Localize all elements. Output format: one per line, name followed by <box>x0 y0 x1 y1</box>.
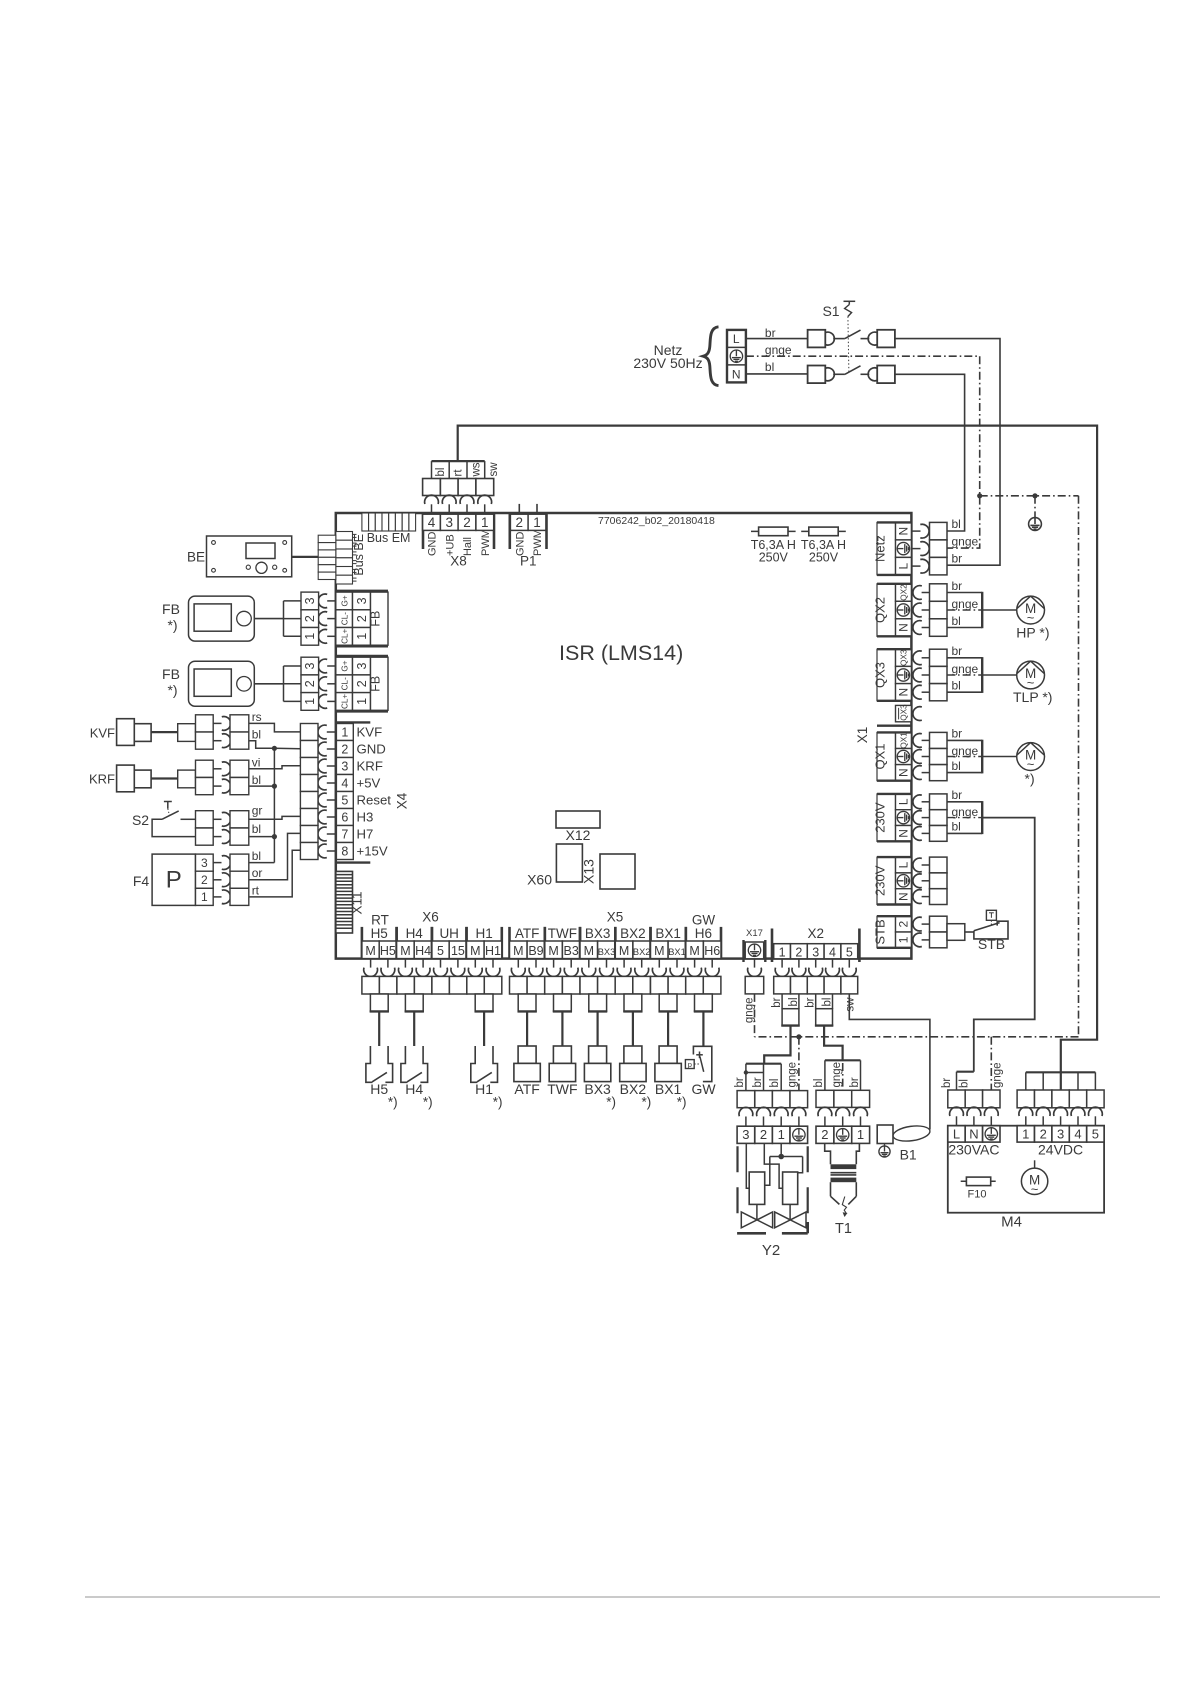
connector X6 plug row <box>362 976 380 994</box>
svg-text:+15V: +15V <box>357 844 388 859</box>
wire gnge <box>947 756 982 758</box>
svg-text:1: 1 <box>201 890 208 904</box>
svg-text:ISR (LMS14): ISR (LMS14) <box>559 641 683 665</box>
connector group QX3 label box <box>877 649 896 701</box>
svg-text:*): *) <box>493 1095 503 1110</box>
svg-text:L: L <box>897 562 911 569</box>
svg-text:bl: bl <box>952 820 961 834</box>
wire gnge X17 to dash-dot trunk <box>754 994 756 1037</box>
cable sleeve <box>370 994 388 1011</box>
connector group H4 (pins M/H4) <box>395 927 398 959</box>
svg-text:KVF: KVF <box>90 726 115 741</box>
room unit FB2 <box>189 661 255 706</box>
svg-text:1: 1 <box>778 1127 785 1142</box>
connector X8 plug cells <box>423 479 441 496</box>
svg-text:br: br <box>941 1078 953 1088</box>
sensor ATF <box>518 1046 536 1063</box>
connector 230V mating contacts <box>913 858 922 872</box>
cable down to device <box>378 1011 380 1046</box>
connector QX1 plug cells <box>930 732 948 748</box>
fuse F10 <box>961 1180 996 1182</box>
svg-text:*): *) <box>1025 771 1035 787</box>
svg-text:STB: STB <box>872 919 887 944</box>
switch H1 <box>471 1046 478 1082</box>
connector 230V board cells <box>896 857 912 873</box>
svg-text:FB: FB <box>162 601 180 617</box>
Y2 dashed enclosure <box>736 1146 738 1218</box>
svg-text:QX3: QX3 <box>899 649 908 666</box>
svg-text:*): *) <box>423 1095 433 1110</box>
cable down to device <box>483 1011 485 1046</box>
svg-text:7706242_b02_20180418: 7706242_b02_20180418 <box>598 515 715 527</box>
connector X2 brackets and label <box>771 929 774 963</box>
S1 pole connector boxes and blade <box>808 366 826 384</box>
cable sleeve <box>589 994 607 1011</box>
svg-text:1: 1 <box>355 633 369 640</box>
sensor BX2 <box>624 1046 642 1063</box>
svg-text:7: 7 <box>341 827 348 841</box>
connector QX1 board cells <box>896 732 912 748</box>
M4 24VDC fan-out <box>1026 1071 1096 1073</box>
svg-text:bl: bl <box>252 822 261 836</box>
svg-text:bl: bl <box>252 849 261 863</box>
connector T1 plug cells <box>816 1090 834 1107</box>
svg-text:M: M <box>584 944 594 958</box>
svg-text:N: N <box>732 367 741 381</box>
Y2 cable fan-out with labels br br bl gnge <box>746 1063 781 1065</box>
connector group 230V label box <box>877 857 896 904</box>
svg-text:gnge: gnge <box>992 1062 1004 1088</box>
connector X11 <box>336 871 353 933</box>
svg-text:1: 1 <box>303 633 317 640</box>
svg-text:BE: BE <box>187 550 205 565</box>
svg-text:250V: 250V <box>809 551 839 565</box>
svg-text:H5: H5 <box>371 926 388 941</box>
svg-text:M: M <box>689 944 699 958</box>
cable sleeve <box>659 994 677 1011</box>
connector X4 mating contacts <box>318 725 327 739</box>
svg-text:1: 1 <box>779 945 786 959</box>
svg-text:br: br <box>952 788 963 802</box>
svg-text:GND: GND <box>427 532 439 557</box>
svg-text:2: 2 <box>463 515 471 530</box>
wire gnge dash-dot inside T1 fan-out <box>842 1063 844 1090</box>
wire gnge dash-dot down to Netz plug <box>947 356 980 548</box>
svg-text:or: or <box>252 866 263 880</box>
svg-text:S2: S2 <box>132 812 149 828</box>
svg-text:bl: bl <box>952 614 961 628</box>
wire gnge <box>947 674 982 676</box>
pump HP <box>1017 596 1045 624</box>
svg-text:H4: H4 <box>406 926 424 941</box>
connector group Netz label box <box>877 522 896 575</box>
connector Netz board cells <box>896 522 912 540</box>
svg-text:GW: GW <box>691 1081 716 1097</box>
svg-text:H6: H6 <box>704 944 720 958</box>
connector group STB thick boundary lines <box>877 915 911 917</box>
connector group Netz thick boundary lines <box>877 521 911 523</box>
connector FB1 plug cells 3 2 1 <box>301 592 319 610</box>
svg-text:UH: UH <box>439 926 459 941</box>
wire gnge dash-dot into Y2 plug <box>798 1037 800 1091</box>
svg-text:bl: bl <box>769 1079 781 1088</box>
svg-text:H5: H5 <box>370 1081 388 1097</box>
sensor BX1 <box>659 1046 677 1063</box>
svg-text:M: M <box>513 944 523 958</box>
svg-text:M: M <box>654 944 664 958</box>
connector FB2 board cells G+ CL- CL+ / 3 2 1 <box>336 657 353 675</box>
svg-text:1: 1 <box>857 1127 864 1142</box>
svg-text:KRF: KRF <box>89 772 115 787</box>
svg-text:3: 3 <box>355 597 369 604</box>
cable sleeve X2 3+4 to T1 <box>815 994 817 1009</box>
svg-text:230V 50Hz: 230V 50Hz <box>633 355 702 371</box>
junction gnge trunk to Y2 <box>796 1034 801 1039</box>
switch H4 <box>401 1046 408 1082</box>
connector group QX2 thick boundary lines <box>877 583 911 585</box>
svg-text:bl: bl <box>813 1079 825 1088</box>
svg-text:H5: H5 <box>380 944 396 958</box>
svg-text:250V: 250V <box>759 551 789 565</box>
svg-text:2: 2 <box>303 680 317 687</box>
svg-text:~: ~ <box>1031 1182 1039 1197</box>
single terminal QX3-bar <box>896 705 912 721</box>
svg-text:QX1: QX1 <box>899 732 908 749</box>
svg-text:br: br <box>849 1077 861 1087</box>
svg-text:QX1: QX1 <box>872 743 887 769</box>
connector X4 board cells 1-8 <box>336 724 353 741</box>
svg-text:bl: bl <box>252 728 261 742</box>
svg-text:p: p <box>688 1060 692 1069</box>
svg-text:BX2: BX2 <box>633 947 651 957</box>
svg-text:bl: bl <box>788 998 800 1007</box>
svg-text:3: 3 <box>812 945 819 959</box>
Y2 valve symbol 2 <box>775 1212 806 1228</box>
cable X2(1,2) down to gas valve Y2 <box>764 1026 790 1064</box>
svg-text:H3: H3 <box>357 810 374 825</box>
cable join <box>981 592 983 628</box>
svg-text:STB: STB <box>978 936 1005 952</box>
svg-text:M: M <box>400 944 410 958</box>
brace for Netz terminal <box>703 327 718 386</box>
connector QX2 plug cells <box>930 584 948 602</box>
wire bl <box>947 772 982 774</box>
svg-text:1: 1 <box>533 515 541 530</box>
connector STB plug cells <box>930 916 948 932</box>
svg-text:bl: bl <box>765 360 774 374</box>
switch H5 <box>366 1046 373 1082</box>
connector group 230V thick boundary lines <box>877 856 911 858</box>
connector Y2 plug cells <box>737 1091 755 1108</box>
svg-text:2: 2 <box>341 742 348 756</box>
connector T1 mating contacts <box>818 1107 832 1116</box>
connector 230V plug cells <box>930 794 948 810</box>
svg-text:vi: vi <box>252 755 261 769</box>
svg-text:H4: H4 <box>415 944 431 958</box>
cable sleeve <box>695 994 713 1011</box>
Y2 valve symbol 1 <box>741 1212 772 1228</box>
svg-text:bl: bl <box>252 773 261 787</box>
svg-text:3: 3 <box>445 515 453 530</box>
svg-text:~: ~ <box>1027 675 1035 690</box>
svg-text:sw: sw <box>488 462 500 477</box>
T1 cable fan-out with labels bl gnge br <box>825 1059 861 1061</box>
pump motor <box>1017 743 1045 771</box>
svg-text:gnge: gnge <box>952 744 979 758</box>
svg-text:*): *) <box>388 1095 398 1110</box>
connector group QX3 thick boundary lines <box>877 648 911 650</box>
connector QX1 mating contacts <box>913 734 922 748</box>
svg-text:bl: bl <box>952 678 961 692</box>
connector P1 pins 2 1 <box>508 513 511 549</box>
S1 pole connector boxes and blade <box>808 330 826 348</box>
svg-text:rs: rs <box>252 710 262 724</box>
svg-text:br: br <box>752 1077 764 1087</box>
svg-text:X60: X60 <box>527 872 552 888</box>
svg-text:X13: X13 <box>581 859 597 884</box>
svg-text:QX3: QX3 <box>872 662 887 688</box>
T1 spark symbol <box>842 1197 846 1217</box>
svg-text:gnge: gnge <box>952 805 979 819</box>
cable down to device <box>667 1011 669 1046</box>
cable down to device <box>526 1011 528 1046</box>
svg-text:Bus BE: Bus BE <box>352 534 366 576</box>
svg-text:M4: M4 <box>1001 1214 1022 1231</box>
svg-text:rt: rt <box>252 883 260 897</box>
connector M4 230VAC plug cells <box>948 1090 965 1108</box>
label FB2 (board side) box <box>371 657 389 710</box>
svg-text:PWM: PWM <box>480 529 492 556</box>
svg-text:Netz: Netz <box>872 535 887 562</box>
svg-text:Y2: Y2 <box>762 1242 780 1259</box>
svg-text:X2: X2 <box>808 926 825 941</box>
cable down to device <box>596 1011 598 1046</box>
connector group QX1 thick boundary lines <box>877 731 911 733</box>
svg-text:QX3: QX3 <box>899 704 908 721</box>
svg-text:BX1: BX1 <box>655 926 681 941</box>
svg-text:2: 2 <box>821 1127 828 1142</box>
connector Bus BE plug <box>318 535 336 542</box>
page footer rule <box>85 1596 1160 1598</box>
svg-text:N: N <box>897 623 911 632</box>
svg-text:X12: X12 <box>566 827 591 843</box>
svg-text:Bus EM: Bus EM <box>367 531 411 545</box>
svg-text:F4: F4 <box>133 873 150 889</box>
M4 terminal 1-5 <box>1017 1126 1034 1142</box>
cable X2(3,4) down to ignition transformer T1 <box>824 1026 843 1061</box>
cable sleeve X2 1+2 to Y2 <box>781 994 783 1009</box>
protective earth symbol <box>1029 518 1042 531</box>
Y2 internal wiring <box>746 1143 749 1188</box>
svg-text:FB: FB <box>369 676 383 692</box>
M4 230VAC fan-out wires br bl gnge <box>957 1071 974 1073</box>
connector QX3 mating contacts <box>913 651 922 665</box>
connector QX2 mating contacts <box>913 586 922 600</box>
connector FB2 plug cells 3 2 1 <box>301 657 319 675</box>
wire gnge dash-dot to M4 PE <box>990 1037 992 1090</box>
connector STB mating contacts <box>913 917 922 931</box>
Y2 coil 1 <box>749 1172 765 1204</box>
wire bus from FB1 room unit to plug <box>283 601 285 636</box>
connector group BX2 (pins M/BX2) <box>614 927 617 959</box>
M4 module box <box>948 1126 1104 1213</box>
svg-text:br: br <box>771 997 783 1007</box>
svg-text:B9: B9 <box>528 944 543 958</box>
svg-text:N: N <box>969 1126 978 1141</box>
flame sensor B1 <box>877 1125 893 1144</box>
wire br <box>947 739 982 741</box>
svg-text:X4: X4 <box>395 792 410 809</box>
svg-text:br: br <box>734 1077 746 1087</box>
connector QX3 board cells <box>896 649 912 666</box>
svg-text:BX2: BX2 <box>620 926 646 941</box>
operator unit BE <box>207 536 292 577</box>
connector group TWF (pins M/B3) <box>543 927 546 959</box>
cable sleeve STB <box>947 924 965 941</box>
connector Netz plug cells <box>930 522 948 540</box>
connector P1 pin stubs <box>518 504 520 513</box>
svg-text:P1: P1 <box>520 554 537 569</box>
svg-text:2: 2 <box>201 873 208 887</box>
M4 terminal L N PE <box>948 1126 965 1142</box>
Y2 coil 2 <box>783 1172 798 1204</box>
svg-text:Reset: Reset <box>357 793 392 808</box>
cable sleeve <box>405 994 423 1011</box>
room unit FB1 <box>189 596 255 641</box>
connector STB board cells <box>896 916 912 932</box>
connector Bus EM <box>362 513 369 531</box>
svg-text:BX3: BX3 <box>585 926 611 941</box>
svg-text:CL+: CL+ <box>340 694 349 709</box>
gnge dash-dot trunk to right with junction <box>977 493 982 498</box>
svg-text:8: 8 <box>341 844 348 858</box>
B1 earth symbol <box>884 1144 886 1147</box>
svg-text:GND: GND <box>515 532 527 557</box>
svg-text:M: M <box>548 944 558 958</box>
svg-text:ATF: ATF <box>514 1081 539 1097</box>
cable join <box>981 801 983 834</box>
wire bl <box>947 832 982 834</box>
wire br <box>947 592 982 594</box>
cable down to device <box>702 1011 704 1046</box>
pump TLP <box>1017 661 1045 689</box>
cable sleeve <box>554 994 572 1011</box>
svg-text:*): *) <box>167 682 177 698</box>
wire gnge <box>947 817 982 819</box>
svg-text:TWF: TWF <box>547 1081 577 1097</box>
svg-text:gnge: gnge <box>765 343 792 357</box>
svg-text:BX3: BX3 <box>598 947 616 957</box>
wire br <box>947 657 982 659</box>
svg-text:3: 3 <box>201 856 208 870</box>
svg-text:5: 5 <box>437 944 444 958</box>
wire bus from FB2 room unit to plug <box>283 666 285 701</box>
svg-text:5: 5 <box>341 793 348 807</box>
connector QX2 board cells <box>896 584 912 602</box>
svg-text:CL+: CL+ <box>340 628 349 643</box>
svg-text:H4: H4 <box>405 1081 423 1097</box>
svg-text:1: 1 <box>481 515 489 530</box>
svg-text:L: L <box>733 332 740 346</box>
svg-text:2: 2 <box>516 515 524 530</box>
svg-text:M: M <box>365 944 375 958</box>
wire br from Netz L to S1 <box>746 338 808 340</box>
svg-text:bl: bl <box>958 1079 970 1088</box>
svg-text:M: M <box>619 944 629 958</box>
cable sleeve <box>475 994 493 1011</box>
STB thermal actuator <box>986 910 996 920</box>
terminal block T1 2 PE 1 <box>816 1126 834 1143</box>
GW actuator box p <box>685 1060 694 1069</box>
connector group H6 (pins M/H6) <box>684 927 687 959</box>
svg-text:CL-: CL- <box>340 677 349 690</box>
connector FB2 mating contacts <box>318 659 327 673</box>
cable join <box>981 657 983 693</box>
svg-text:F10: F10 <box>968 1189 987 1201</box>
svg-text:N: N <box>897 829 911 838</box>
wire fan control from X8 to M4 24VDC <box>458 426 1097 1073</box>
svg-text:X1: X1 <box>855 727 870 744</box>
connector FB2 bracket <box>336 655 388 657</box>
connector X13 <box>600 854 635 889</box>
svg-text:L: L <box>953 1126 960 1141</box>
sensor TWF <box>553 1046 571 1063</box>
svg-text:H1: H1 <box>475 926 492 941</box>
svg-text:X17: X17 <box>746 928 763 939</box>
svg-text:*): *) <box>677 1095 687 1110</box>
svg-text:sw: sw <box>844 997 856 1012</box>
svg-text:X11: X11 <box>350 891 365 914</box>
svg-text:QX2: QX2 <box>899 584 908 601</box>
svg-text:M: M <box>470 944 480 958</box>
wire bl <box>947 627 982 629</box>
cable join <box>981 740 983 774</box>
svg-text:X8: X8 <box>450 554 467 569</box>
terminal block Netz L/PE/N <box>727 330 746 383</box>
svg-text:2: 2 <box>760 1127 767 1142</box>
svg-text:HP *): HP *) <box>1016 625 1049 641</box>
connector group ATF (pins M/B9) <box>508 927 511 959</box>
connector QX3 plug cells <box>930 649 948 666</box>
wire bl <box>947 691 982 693</box>
junction for earth symbol drop <box>1032 493 1037 498</box>
svg-text:br: br <box>805 997 817 1007</box>
svg-text:gnge: gnge <box>831 1062 843 1088</box>
svg-text:+5V: +5V <box>357 776 381 791</box>
svg-text:N: N <box>897 768 911 777</box>
connector pair KVF <box>178 724 196 742</box>
connector pair KRF <box>178 770 196 788</box>
safety limit thermostat STB switch <box>974 921 1008 939</box>
connector FB1 board cells G+ CL- CL+ / 3 2 1 <box>336 592 353 610</box>
connector X12 <box>556 811 600 828</box>
svg-text:2: 2 <box>303 615 317 622</box>
svg-text:~: ~ <box>1027 610 1035 625</box>
connector X8 mating contacts <box>425 495 439 504</box>
svg-text:*): *) <box>167 617 177 633</box>
svg-text:230V: 230V <box>872 802 887 833</box>
connector Y2 mating contacts <box>739 1107 753 1116</box>
connector X8 pins 4 3 2 1 <box>422 513 425 549</box>
ISR (LMS14) controller board outline <box>336 513 912 959</box>
svg-text:br: br <box>952 644 963 658</box>
svg-text:4: 4 <box>829 945 836 959</box>
connector X2 plug cells <box>774 976 791 994</box>
svg-text:ATF: ATF <box>515 926 540 941</box>
svg-text:KRF: KRF <box>357 759 383 774</box>
connector X4 brackets <box>336 721 371 723</box>
svg-text:1: 1 <box>303 698 317 705</box>
